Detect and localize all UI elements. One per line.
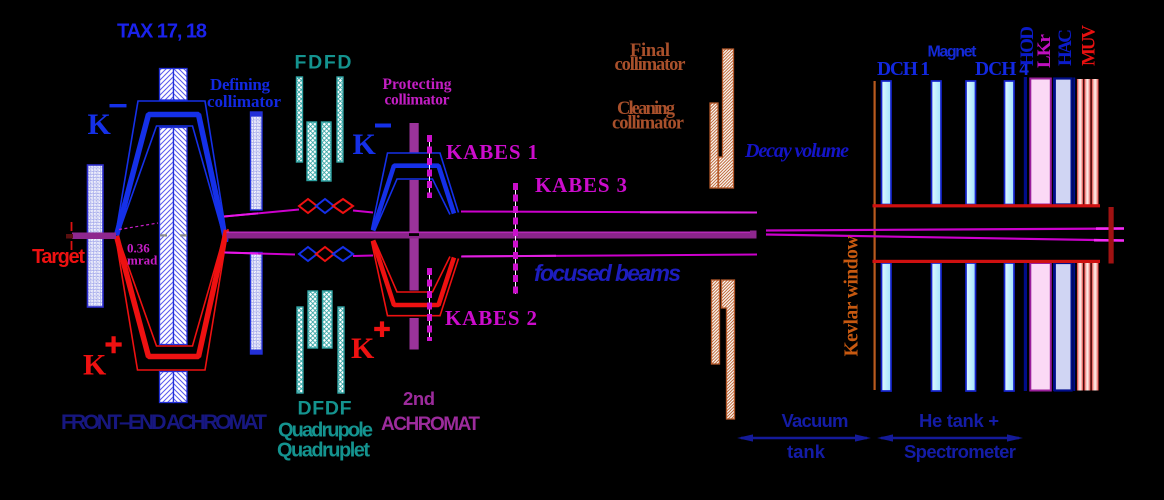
upper thin beam line after quadrupoles xyxy=(353,211,373,213)
K- beam envelope inner line, front-end achromat xyxy=(118,126,225,239)
central thick beam band from achromat to decay region xyxy=(227,232,757,239)
vacuum tank extent arrow xyxy=(737,434,871,441)
0.36 mrad dashed angle line xyxy=(119,223,158,230)
HAC hadron calorimeter upper xyxy=(1055,79,1072,205)
protecting collimator bar lower segment xyxy=(410,318,419,350)
svg-text:Quadruplet: Quadruplet xyxy=(277,440,370,462)
quadrupole diamond symbols upper row (red,blue,red) xyxy=(299,199,353,213)
K+ beam envelope inner line, front-end achromat xyxy=(118,233,226,347)
HAC hadron calorimeter lower xyxy=(1055,263,1072,391)
svg-text:collimator: collimator xyxy=(612,114,684,134)
beam band stub after collimators xyxy=(750,231,757,238)
navy bar between LKr and HAC upper xyxy=(1053,78,1056,205)
navy bar after HAC lower xyxy=(1073,263,1075,391)
bright segment upper thin line mid xyxy=(640,211,757,213)
bright segment lower thin line at achromat exit xyxy=(225,253,259,254)
spectrometer extent arrow xyxy=(877,434,1023,441)
DCH 3 chamber upper xyxy=(966,81,976,205)
svg-text:Protecting: Protecting xyxy=(383,76,452,93)
svg-text:Vacuum: Vacuum xyxy=(782,410,849,431)
svg-text:MUV: MUV xyxy=(1079,25,1100,66)
bright top edge of central band xyxy=(227,232,757,234)
FDFD quadrupole bars (upper beam) xyxy=(297,77,344,181)
protecting collimator bar upper segment xyxy=(410,123,419,153)
DCH 4 chamber upper xyxy=(1005,81,1015,205)
defining collimator lower bar xyxy=(251,253,263,355)
svg-text:LKr: LKr xyxy=(1034,33,1055,68)
svg-text:FRONT–END ACHROMAT: FRONT–END ACHROMAT xyxy=(61,411,267,434)
final collimator upper bar xyxy=(719,49,734,188)
K+ beam envelope thick band, 2nd achromat xyxy=(373,241,454,306)
DFDF quadrupole bars (lower beam) xyxy=(297,291,344,393)
DCH 3 chamber lower xyxy=(966,263,976,391)
svg-text:K: K xyxy=(351,332,375,365)
svg-text:KABES 1: KABES 1 xyxy=(446,140,538,164)
svg-text:TAX 17, 18: TAX 17, 18 xyxy=(117,21,207,43)
DCH 2 chamber lower xyxy=(932,263,942,391)
K+ beam envelope thick band, front-end achromat xyxy=(117,230,227,357)
target position dashed red line xyxy=(71,222,73,250)
quadrupole diamond symbols lower row (blue,red,blue) xyxy=(299,247,353,261)
bright segment lower line near focus xyxy=(1094,239,1124,242)
DCH 1 chamber lower xyxy=(882,263,892,391)
upper focusing beam line to spectrometer xyxy=(766,229,1124,231)
TAX 17,18 absorber block (left column, hatched) xyxy=(160,69,174,403)
KABES 1 dashed detector line xyxy=(429,135,431,198)
DCH 1 chamber upper xyxy=(882,81,892,205)
svg-text:Target: Target xyxy=(32,246,85,268)
KABES 3 dashed detector line xyxy=(515,183,517,294)
final collimator lower bar xyxy=(722,280,735,419)
svg-text:He tank +: He tank + xyxy=(919,410,999,431)
lower focusing beam line to spectrometer xyxy=(766,235,1124,241)
lower thin beam line before quadrupoles xyxy=(225,253,296,255)
detector region top red line xyxy=(873,204,1101,207)
svg-text:DFDF: DFDF xyxy=(298,398,352,420)
svg-text:mrad: mrad xyxy=(127,253,158,268)
svg-text:KABES 2: KABES 2 xyxy=(445,306,537,330)
DCH 4 chamber lower xyxy=(1005,263,1015,391)
svg-text:focused beams: focused beams xyxy=(534,260,681,286)
collimator bar left of TAX xyxy=(88,165,104,307)
target tip xyxy=(66,234,73,239)
bright segment upper thin line at achromat exit xyxy=(224,213,258,216)
TAX 17,18 absorber block (right column, hatched) xyxy=(174,69,188,403)
detector region bottom red line xyxy=(873,260,1101,263)
lower thin beam line after quadrupoles xyxy=(353,255,373,258)
bright segment lower thin line mid xyxy=(462,255,556,258)
LKr calorimeter lower xyxy=(1030,263,1051,391)
tick on protecting collimator xyxy=(409,233,419,236)
bright segment upper line near focus xyxy=(1096,227,1124,230)
svg-text:DCH 1: DCH 1 xyxy=(877,59,930,80)
Kevlar window line xyxy=(874,81,876,390)
svg-text:tank: tank xyxy=(787,441,826,462)
navy bar between LKr and HAC lower xyxy=(1053,263,1056,391)
K+ beam envelope outer line, front-end achromat xyxy=(116,229,229,370)
upper thin beam line after 2nd achromat xyxy=(461,212,757,213)
K- beam envelope outer line, front-end achromat xyxy=(116,101,228,242)
cleaning collimator lower bar xyxy=(712,280,720,364)
svg-text:Quadrupole: Quadrupole xyxy=(278,420,373,442)
svg-text:Spectrometer: Spectrometer xyxy=(904,441,1016,462)
svg-text:ACHROMAT: ACHROMAT xyxy=(381,414,480,435)
K- beam envelope inner line, 2nd achromat xyxy=(375,179,451,231)
svg-text:HAC: HAC xyxy=(1055,29,1076,66)
svg-text:collimator: collimator xyxy=(385,92,450,109)
MUV muon veto bars upper xyxy=(1077,79,1099,205)
K- beam envelope outer line, 2nd achromat xyxy=(372,153,459,230)
navy bar after HAC upper xyxy=(1073,78,1075,205)
K+ beam envelope inner line, 2nd achromat xyxy=(375,240,451,292)
lower thin beam line after 2nd achromat xyxy=(461,255,757,257)
gray ticks on TAX at beam axis xyxy=(160,234,167,236)
svg-text:Decay volume: Decay volume xyxy=(744,140,849,162)
MUV muon veto bars lower xyxy=(1077,263,1099,391)
DCH 2 chamber upper xyxy=(932,81,942,205)
svg-text:collimator: collimator xyxy=(207,92,281,111)
LKr calorimeter upper xyxy=(1030,79,1051,205)
svg-text:K: K xyxy=(83,349,107,382)
central thick beam band from target to TAX xyxy=(72,233,116,240)
KABES 2 dashed detector line xyxy=(429,268,431,341)
svg-text:Magnet: Magnet xyxy=(928,44,978,61)
svg-text:KABES 3: KABES 3 xyxy=(535,173,627,197)
svg-text:K: K xyxy=(353,128,377,161)
K- beam envelope thick band, 2nd achromat xyxy=(373,166,454,231)
svg-text:collimator: collimator xyxy=(615,55,686,75)
svg-text:Kevlar window: Kevlar window xyxy=(842,236,863,357)
K+ beam envelope outer line, 2nd achromat xyxy=(372,242,459,316)
upper thin beam line before quadrupoles xyxy=(224,210,299,217)
K- beam envelope thick band, front-end achromat xyxy=(117,115,227,242)
HOD hodoscope bar upper xyxy=(1024,77,1027,205)
svg-text:K: K xyxy=(88,108,112,141)
HOD hodoscope bar lower xyxy=(1024,263,1027,391)
dark red bar at focal plane xyxy=(1109,207,1114,264)
cleaning collimator upper bar xyxy=(710,103,718,188)
svg-text:FDFD: FDFD xyxy=(295,52,352,74)
svg-text:2nd: 2nd xyxy=(403,388,435,409)
defining collimator upper bar xyxy=(251,112,263,210)
protecting collimator bar middle segment xyxy=(410,180,419,291)
